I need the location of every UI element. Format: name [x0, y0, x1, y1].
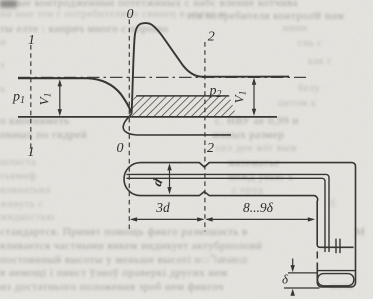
nozzle capsule bottom line, break notch, down-bend, tank lid: [141, 192, 354, 248]
velocity arrow V1 left: [59, 82, 61, 114]
bleed-through background text from reverse page: [0, 0, 298, 9]
jet boundary upper channel line with rounded left cap: [123, 114, 231, 135]
nozzle capsule top line, break notch, right wall, tank bottom: [141, 163, 356, 287]
velocity arrow V1 right: [253, 80, 255, 114]
slip joint mark left: [335, 239, 337, 254]
nozzle capsule left cap: [124, 163, 140, 196]
wall top line: [136, 95, 229, 97]
dimension 8...9delta: [207, 218, 314, 220]
svg-text:V1: V1: [37, 93, 54, 106]
tank left wall dash: [316, 252, 318, 259]
d arrow: [169, 165, 171, 192]
lower wall line: [18, 116, 277, 118]
delta arrow bottom (pointing up): [292, 291, 294, 296]
svg-text:V1: V1: [232, 91, 249, 104]
pressure line p1 with drop curve: [18, 78, 132, 113]
svg-text:8...9δ: 8...9δ: [243, 200, 274, 215]
centerline (dash-dot axis): [18, 76, 306, 78]
slip joint mark right: [339, 239, 341, 254]
svg-text:δ: δ: [282, 272, 289, 287]
svg-text:p2: p2: [209, 84, 222, 101]
pressure spike and p2 line: [132, 23, 289, 113]
slot line lower: [127, 178, 326, 252]
svg-text:0: 0: [117, 141, 124, 156]
liquid level line: [318, 270, 356, 272]
delta extension line top: [288, 272, 318, 274]
svg-text:p1: p1: [12, 90, 25, 107]
svg-text:1: 1: [28, 145, 35, 160]
section line 0-0 (dashed): [128, 20, 130, 232]
slot line upper: [127, 174, 330, 252]
wall hatch region: [132, 96, 237, 117]
svg-text:1: 1: [28, 33, 35, 48]
delta extension line bottom: [284, 287, 320, 289]
dimension 3d: [132, 218, 204, 220]
outlet slot capsule: [318, 274, 354, 286]
svg-text:3d: 3d: [155, 200, 170, 215]
section line 2-2 (dashed): [204, 42, 206, 232]
dark corner smudge top-left: [0, 0, 17, 8]
section line 1-1 (dashed): [30, 45, 32, 154]
svg-text:2: 2: [208, 30, 215, 45]
delta arrow top (pointing down): [292, 259, 294, 267]
svg-text:0: 0: [127, 7, 134, 22]
svg-text:2: 2: [207, 141, 214, 156]
